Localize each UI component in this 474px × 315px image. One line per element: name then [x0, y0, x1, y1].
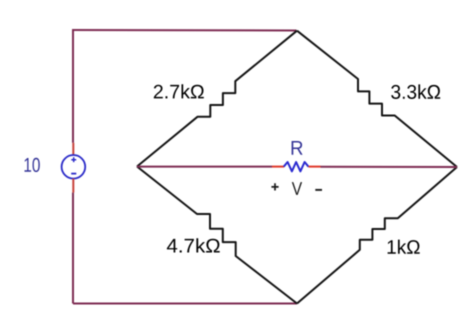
- voltage source bottom terminal stub: [72, 179, 74, 193]
- label + (bridge polarity plus): [271, 183, 278, 190]
- wire left upper: [72, 29, 74, 143]
- resistor R (bridge resistor, zigzag): [284, 162, 309, 171]
- label - (bridge polarity minus): [315, 189, 322, 191]
- wire middle left (left node to bridge resistor): [137, 166, 272, 168]
- wire middle right (bridge resistor to right node): [321, 166, 458, 168]
- label V (bridge voltage): [292, 182, 302, 195]
- resistor 1k (bottom-right branch, staircase symbol): [297, 167, 457, 304]
- label R: [292, 141, 303, 155]
- resistor 2.7k (top-left branch, staircase symbol): [137, 31, 297, 167]
- label 10 (source value): [25, 158, 40, 172]
- voltage source V1 (10 V): [62, 155, 86, 179]
- resistor R right terminal stub: [309, 166, 321, 168]
- resistor 4.7k (bottom-left branch, staircase symbol): [137, 167, 297, 304]
- label 3.3kOhm: [391, 84, 440, 99]
- resistor R left terminal stub: [272, 166, 284, 168]
- resistor 3.3k (top-right branch, staircase symbol): [297, 31, 457, 167]
- label 2.7kOhm: [154, 84, 204, 98]
- wire top (source to top node): [73, 29, 297, 32]
- wire bottom (source to bottom node): [73, 303, 297, 305]
- label 4.7kOhm: [167, 238, 220, 252]
- label 1kOhm: [388, 240, 420, 254]
- wire left lower: [72, 193, 74, 304]
- voltage source top terminal stub: [72, 143, 74, 155]
